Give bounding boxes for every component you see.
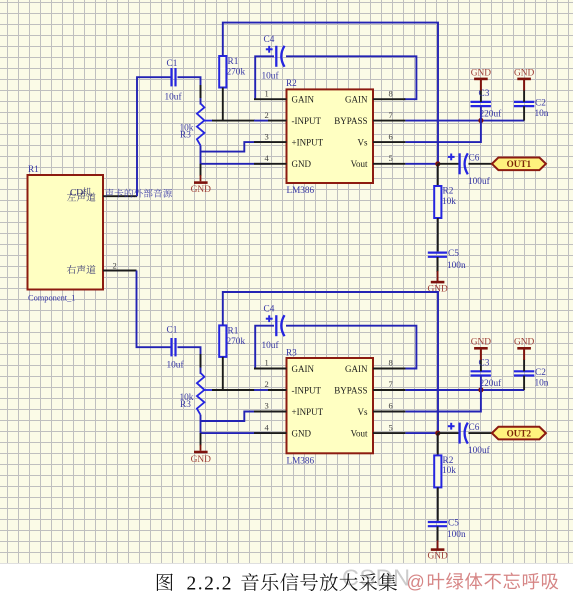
- svg-text:+INPUT: +INPUT: [292, 137, 324, 147]
- U1 pin 8 stub (top): [373, 98, 405, 100]
- svg-text:10n: 10n: [535, 109, 549, 119]
- svg-text:10uf: 10uf: [165, 92, 183, 103]
- svg-text:R3: R3: [286, 347, 297, 357]
- junction at C3 bottom (top): [478, 118, 483, 123]
- wire C4 left to U2 pin1 (bottom): [255, 326, 274, 369]
- svg-text:R3: R3: [180, 400, 191, 410]
- svg-text:C2: C2: [535, 368, 546, 378]
- capacitor C4 polarized (top): [266, 48, 273, 50]
- caption 音乐信号放大采集: [241, 573, 397, 591]
- svg-text:Vs: Vs: [357, 137, 367, 147]
- svg-text:R2: R2: [443, 187, 454, 197]
- wire R2 to C5 (top): [437, 218, 439, 251]
- power stub to GND above C3 (top): [480, 79, 482, 91]
- pin 左声道 stub of Component_1: [103, 195, 137, 197]
- svg-text:2: 2: [113, 261, 117, 271]
- svg-text:2: 2: [265, 110, 269, 120]
- ground symbol above C3 (bottom): [474, 347, 488, 350]
- svg-text:Component_1: Component_1: [28, 294, 75, 303]
- svg-text:Vs: Vs: [357, 407, 367, 417]
- svg-text:BYPASS: BYPASS: [334, 116, 367, 126]
- power stub to GND above C3 (bottom): [480, 348, 482, 360]
- svg-text:10uf: 10uf: [262, 71, 280, 82]
- U1 pin 2 stub (top): [268, 120, 287, 122]
- wire segment into R3 top black (bottom): [200, 354, 202, 368]
- svg-text:3: 3: [265, 401, 269, 411]
- wire R1 feedback to Vout node (bottom): [223, 292, 438, 433]
- ground symbol below C5 (top): [431, 281, 445, 284]
- wire to ground below pin4 (bottom): [200, 433, 202, 446]
- svg-text:10uf: 10uf: [262, 340, 280, 351]
- op-amp U1 LM386 box (top): [287, 89, 374, 183]
- component Component_1 CD player source box: [28, 175, 104, 290]
- U1 pin 7 stub (top): [373, 120, 405, 122]
- U2 pin 2 stub (bottom): [268, 389, 287, 391]
- wire C5 to ground (top): [437, 257, 439, 272]
- svg-text:GND: GND: [514, 68, 535, 78]
- wire Vout pin5 to output node (top): [405, 163, 437, 165]
- wire Vout pin5 to output node (bottom): [405, 432, 437, 434]
- svg-text:C5: C5: [448, 518, 459, 528]
- wire to ground below pin4 (top): [200, 164, 202, 176]
- resistor R3 10k potentiometer zigzag (top): [197, 104, 205, 146]
- svg-text:C6: C6: [469, 154, 480, 164]
- svg-text:100n: 100n: [447, 261, 466, 271]
- wire C1 to R3 top (top): [178, 77, 201, 104]
- svg-text:GND: GND: [471, 68, 492, 78]
- svg-text:100uf: 100uf: [468, 445, 491, 456]
- wire C1 to R3 top (bottom): [178, 347, 201, 374]
- svg-text:LM386: LM386: [287, 456, 315, 466]
- ground symbol above C2 (bottom): [517, 347, 531, 350]
- svg-text:C1: C1: [167, 326, 178, 336]
- svg-text:Vout: Vout: [351, 428, 368, 438]
- wire Vs pin6 to bypass node (bottom): [405, 389, 481, 412]
- svg-text:3: 3: [265, 131, 269, 141]
- wire Vout node to C6 (bottom): [438, 432, 460, 434]
- port OUT2: [492, 427, 546, 440]
- ground symbol below R3 (top): [194, 181, 208, 184]
- resistor R2 10k body (bottom): [434, 455, 441, 487]
- caption 图 2.2.2: [157, 574, 173, 591]
- capacitor C5 100n (bottom): [428, 521, 447, 523]
- U1 pin 4 stub (top): [254, 163, 287, 165]
- svg-text:GAIN: GAIN: [345, 364, 368, 374]
- svg-text:270k: 270k: [227, 68, 246, 78]
- wire BYPASS rail pin7 (top): [405, 120, 524, 122]
- op-amp U2 LM386 box (bottom): [287, 358, 374, 453]
- wire Vout node down to R2 (top): [437, 164, 439, 186]
- wire C6 to port OUT1 (top): [469, 163, 493, 165]
- svg-text:R1: R1: [228, 326, 239, 336]
- wire C4 right to U1 pin8 (top): [286, 56, 416, 99]
- svg-text:10n: 10n: [535, 379, 549, 389]
- svg-text:GND: GND: [191, 455, 212, 465]
- wire right channel pin down to C1 (bottom): [137, 271, 173, 348]
- wire R1 bottom to pin2 node (bottom): [222, 357, 224, 391]
- svg-text:C4: C4: [264, 304, 275, 314]
- wire R3 bottom jog to U1 pin3 (top): [201, 142, 271, 152]
- pin 右声道 stub of Component_1: [103, 270, 137, 272]
- svg-text:D: D: [76, 188, 83, 199]
- svg-text:1: 1: [265, 358, 269, 368]
- wire R2 to C5 (bottom): [437, 487, 439, 520]
- svg-text:C2: C2: [535, 99, 546, 109]
- wire segment into R3 top (black pin): [200, 85, 202, 98]
- svg-text:7: 7: [389, 379, 393, 389]
- junction at C3 bottom (bottom): [478, 387, 483, 392]
- capacitor C3 220uf (bottom): [471, 370, 491, 372]
- U1 pin 6 stub (top): [373, 141, 405, 143]
- U2 pin 6 stub (bottom): [373, 411, 405, 413]
- label CD机 inside Component_1: [70, 187, 92, 198]
- wire Vs pin6 to bypass node (top): [405, 120, 481, 143]
- wire R1 bottom to pin2 node (top): [222, 88, 224, 122]
- svg-text:R2: R2: [286, 78, 297, 88]
- svg-text:5: 5: [389, 422, 393, 432]
- ground symbol above C3 (top): [474, 78, 488, 81]
- svg-text:C6: C6: [469, 423, 480, 433]
- ground symbol above C2 (top): [517, 78, 531, 81]
- svg-text:GND: GND: [191, 185, 212, 195]
- svg-text:10k: 10k: [442, 466, 456, 476]
- capacitor C6 100uf polarized (bottom): [448, 425, 455, 427]
- wire R3 wiper to U1 pin2 (top): [204, 120, 213, 122]
- ground symbol below R3 (bottom): [194, 451, 208, 454]
- svg-text:GAIN: GAIN: [292, 364, 315, 374]
- svg-text:GND: GND: [427, 552, 448, 562]
- wire C4 right to U2 pin8 (bottom): [286, 326, 416, 369]
- wire C6 to port OUT2 (bottom): [469, 432, 493, 434]
- svg-text:R3: R3: [180, 130, 191, 140]
- svg-text:100uf: 100uf: [468, 176, 491, 187]
- svg-text:10k: 10k: [442, 197, 456, 207]
- power stub to GND above C2 (top): [523, 79, 525, 91]
- capacitor C5 100n (top): [428, 252, 447, 254]
- svg-text:100n: 100n: [447, 530, 466, 540]
- capacitor C6 100uf polarized (top): [448, 156, 455, 158]
- svg-text:C5: C5: [448, 249, 459, 259]
- svg-text:1: 1: [265, 88, 269, 98]
- U2 pin 7 stub (bottom): [373, 389, 405, 391]
- U2 pin 5 stub (bottom): [373, 432, 405, 434]
- svg-text:6: 6: [389, 401, 393, 411]
- svg-text:GND: GND: [292, 159, 312, 169]
- svg-text:2: 2: [265, 379, 269, 389]
- svg-text:@: @: [407, 572, 425, 592]
- U2 pin 8 stub (bottom): [373, 368, 405, 370]
- wire R3 bottom jog to U2 pin3 (bottom): [201, 412, 271, 422]
- U1 pin 3 stub (top): [254, 141, 287, 143]
- wire R3 node to U1 pin4 (top): [201, 152, 271, 164]
- svg-text:OUT1: OUT1: [507, 159, 532, 169]
- wire R1 feedback to Vout node (top): [223, 23, 438, 164]
- capacitor C2 10n (top): [514, 101, 534, 103]
- resistor R1 270k body (bottom): [219, 325, 226, 357]
- svg-text:R1: R1: [28, 164, 39, 174]
- wire R3 wiper to U2 pin2 (bottom): [204, 389, 213, 391]
- wire Vout node to C6 (top): [438, 163, 460, 165]
- svg-text:8: 8: [389, 358, 393, 368]
- svg-text:+INPUT: +INPUT: [292, 407, 324, 417]
- svg-text:GAIN: GAIN: [345, 95, 368, 105]
- svg-text:-INPUT: -INPUT: [292, 385, 322, 395]
- svg-text:GAIN: GAIN: [292, 95, 315, 105]
- capacitor C4 polarized (bottom): [266, 318, 273, 320]
- wire BYPASS rail pin7 (bottom): [405, 389, 524, 391]
- svg-text:GND: GND: [514, 338, 535, 348]
- label 左声道 pin name: [67, 193, 96, 202]
- junction at Vout node (bottom): [435, 431, 440, 436]
- resistor R2 10k body (top): [434, 186, 441, 218]
- svg-text:Vout: Vout: [351, 159, 368, 169]
- U2 pin 3 stub (bottom): [254, 411, 287, 413]
- svg-text:7: 7: [389, 110, 393, 120]
- svg-text:220uf: 220uf: [480, 378, 503, 389]
- resistor R1 270k body (top): [219, 56, 226, 88]
- svg-text:OUT2: OUT2: [507, 428, 532, 438]
- ground symbol below C5 (bottom): [431, 548, 445, 551]
- svg-text:C1: C1: [167, 59, 178, 69]
- svg-text:8: 8: [389, 88, 393, 98]
- svg-text:220uf: 220uf: [480, 109, 503, 120]
- svg-text:2.2.2: 2.2.2: [187, 574, 234, 595]
- svg-text:6: 6: [389, 131, 393, 141]
- wire Vout node down to R2 (bottom): [437, 433, 439, 455]
- capacitor C3 220uf (top): [471, 101, 491, 103]
- power stub to GND above C2 (bottom): [523, 348, 525, 360]
- U1 pin 5 stub (top): [373, 163, 405, 165]
- wire C5 to ground (bottom): [437, 526, 439, 541]
- wire R3 node to U2 pin4 (bottom): [201, 421, 271, 433]
- capacitor C1 (top): [170, 68, 172, 86]
- capacitor C2 10n (bottom): [514, 370, 534, 372]
- svg-text:GND: GND: [471, 338, 492, 348]
- svg-text:5: 5: [389, 153, 393, 163]
- wire left channel pin up to C1: [137, 77, 172, 196]
- U1 pin 1 stub (top): [254, 98, 287, 100]
- svg-text:R2: R2: [443, 456, 454, 466]
- net label 声卡的外部音源: [105, 189, 172, 198]
- svg-text:BYPASS: BYPASS: [334, 385, 367, 395]
- svg-text:LM386: LM386: [287, 185, 315, 195]
- svg-text:GND: GND: [292, 428, 312, 438]
- label 右声道 pin name: [67, 265, 96, 274]
- junction at Vout node (top): [435, 161, 440, 166]
- svg-text:10uf: 10uf: [167, 359, 185, 370]
- U2 pin 4 stub (bottom): [254, 432, 287, 434]
- U2 pin 1 stub (bottom): [254, 368, 287, 370]
- resistor R3 10k potentiometer zigzag (bottom): [197, 373, 205, 415]
- svg-text:R1: R1: [228, 57, 239, 67]
- svg-text:-INPUT: -INPUT: [292, 116, 322, 126]
- svg-text:270k: 270k: [227, 337, 246, 347]
- svg-text:C4: C4: [264, 35, 275, 45]
- port OUT1: [492, 158, 546, 171]
- capacitor C1 (bottom): [170, 338, 172, 356]
- wire C4 left to U1 pin1 (top): [255, 56, 274, 99]
